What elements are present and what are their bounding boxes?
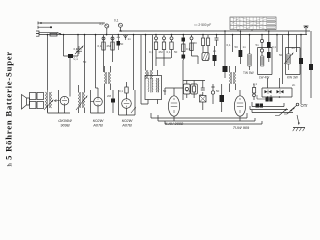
wire col x47 xyxy=(47,35,49,90)
gang value label xyxy=(194,23,211,27)
wire col 232 xyxy=(232,35,234,52)
resistor R19 black xyxy=(299,58,303,64)
resistor R10 black xyxy=(223,66,228,72)
IF transformer T2 coil xyxy=(146,35,153,79)
svg-text:5n: 5n xyxy=(256,43,260,47)
svg-text:2M: 2M xyxy=(107,44,112,48)
wire col x103 with resistor xyxy=(103,35,105,72)
resistor R21 xyxy=(253,88,256,94)
svg-text:0,1: 0,1 xyxy=(98,44,102,48)
svg-text:2n: 2n xyxy=(292,83,296,87)
resistor pair R7 R8 xyxy=(202,38,205,46)
choke blobs xyxy=(266,98,269,102)
arrow to ground xyxy=(297,115,300,124)
svg-text:2M: 2M xyxy=(199,93,204,97)
right-most verticals xyxy=(297,31,312,88)
svg-text:2n: 2n xyxy=(292,46,296,50)
cap C10 xyxy=(215,35,219,46)
svg-text:0,1: 0,1 xyxy=(114,19,119,23)
cap C16 xyxy=(253,94,256,97)
misc verticals mid xyxy=(96,35,149,104)
svg-text:3,5: 3,5 xyxy=(99,22,104,26)
band switch contact loop xyxy=(262,78,292,98)
svg-text:50: 50 xyxy=(83,60,87,64)
cap C7 xyxy=(170,37,173,40)
svg-text:50: 50 xyxy=(216,89,220,93)
resistor R1 xyxy=(102,42,105,50)
svg-text:KW 3W: KW 3W xyxy=(287,76,298,80)
svg-text:909B: 909B xyxy=(60,123,69,128)
dial lamp L1 xyxy=(105,24,109,28)
output choke coil xyxy=(44,90,53,112)
On/Off switch xyxy=(301,88,311,104)
coil L4 xyxy=(261,56,264,66)
svg-text:0,1: 0,1 xyxy=(74,47,78,51)
output transformer windings xyxy=(30,93,37,100)
svg-text:2M: 2M xyxy=(107,94,112,98)
svg-text:K.AV 9008: K.AV 9008 xyxy=(165,121,184,126)
antenna lead wire A xyxy=(38,22,105,25)
cap C5 xyxy=(155,37,158,40)
trimmer cap xyxy=(75,46,83,54)
AVC loop 1 xyxy=(184,84,191,94)
antenna lead wire B xyxy=(38,26,51,29)
wire col x95 xyxy=(95,35,97,88)
svg-text:50: 50 xyxy=(163,89,167,93)
stage box V3 xyxy=(119,90,136,115)
upper rail (second bus) xyxy=(119,30,310,32)
coil L5 xyxy=(284,32,293,71)
tuning gang box xyxy=(230,17,276,31)
svg-text:50: 50 xyxy=(120,42,124,46)
svg-text:2n: 2n xyxy=(213,49,217,53)
cap C8 black xyxy=(182,38,186,42)
side title text xyxy=(4,51,14,183)
lower entry wire with fuse xyxy=(39,32,62,35)
cap C11 xyxy=(260,39,263,42)
svg-text:2M: 2M xyxy=(159,50,164,54)
resistor R18 black xyxy=(220,95,225,102)
svg-text:50: 50 xyxy=(194,41,198,45)
crossed box xyxy=(200,96,207,103)
cap C14 xyxy=(211,91,214,94)
grid cap lead xyxy=(54,100,60,102)
svg-text:50: 50 xyxy=(174,50,178,54)
tube V1 xyxy=(60,96,69,105)
wires around V4 xyxy=(165,60,183,100)
oscillator coil L3 xyxy=(248,35,251,70)
svg-text:≈≈ 2·500 pF: ≈≈ 2·500 pF xyxy=(194,23,211,27)
tube V3 xyxy=(122,99,132,109)
tube V1 label xyxy=(58,118,72,128)
cap C9 xyxy=(190,37,193,40)
node dot on lead A xyxy=(40,22,42,24)
antenna symbol top right xyxy=(304,26,309,35)
terminal A xyxy=(36,31,39,34)
IFT1 coil (above V3) xyxy=(105,66,111,90)
resistor R15 above V3 xyxy=(125,87,128,93)
svg-text:1n: 1n xyxy=(243,45,247,49)
resistor R2 xyxy=(111,42,114,50)
svg-text:0,1: 0,1 xyxy=(167,50,171,54)
cap dot C2 xyxy=(102,37,105,40)
svg-text:0,1: 0,1 xyxy=(253,82,257,86)
resistor R3 xyxy=(154,42,157,50)
resistor R12 black xyxy=(267,42,271,48)
bottom rail left xyxy=(48,105,59,113)
nested bottom-right wire loops xyxy=(252,102,284,107)
svg-text:0,1: 0,1 xyxy=(272,45,276,49)
svg-text:0,1: 0,1 xyxy=(227,43,231,47)
resistor R17 xyxy=(201,81,205,111)
coupling cap C1 xyxy=(68,54,73,58)
svg-text:A07B: A07B xyxy=(92,123,103,128)
tube V5 label xyxy=(233,125,250,130)
svg-text:TUW 909: TUW 909 xyxy=(233,125,250,130)
resistor R4 xyxy=(162,42,165,50)
resistor R6b black xyxy=(182,55,186,59)
svg-text:0,1: 0,1 xyxy=(186,89,190,93)
cap C4 black xyxy=(117,41,121,46)
cap C12 xyxy=(260,49,263,52)
cap C13 xyxy=(185,87,188,90)
resistor R5b xyxy=(190,43,193,51)
node dot lead B xyxy=(50,26,52,28)
cap C6 xyxy=(163,37,166,40)
IF transformer T4 box xyxy=(145,70,162,104)
IF transformer T3 xyxy=(76,35,87,113)
speaker xyxy=(22,95,30,110)
svg-text:A07B: A07B xyxy=(121,123,132,128)
svg-text:0,1: 0,1 xyxy=(119,89,123,93)
output transformer core blobs xyxy=(256,104,260,108)
top rail (main bus) xyxy=(39,34,307,36)
svg-text:TW 5W: TW 5W xyxy=(243,71,254,75)
rail junction dots xyxy=(47,30,302,35)
resistor R6 xyxy=(182,44,185,52)
switch arm S1 xyxy=(279,109,286,116)
tube V4 (output) xyxy=(168,96,179,116)
tube V1 stage box xyxy=(59,56,71,113)
wire col x112 with resistor xyxy=(112,35,114,62)
svg-text:0,1: 0,1 xyxy=(186,47,190,51)
tube V2 label xyxy=(92,118,103,128)
antenna coil loop xyxy=(64,35,79,56)
fuse F1 xyxy=(50,33,57,36)
coil can (hatched) xyxy=(202,53,209,61)
mid horizontals near V4/V5 xyxy=(156,58,164,66)
resistor R20 black xyxy=(309,64,313,70)
switch contact circle xyxy=(296,103,299,106)
resistor R13 black xyxy=(267,52,271,58)
resistor R5 xyxy=(170,42,173,50)
svg-text:50: 50 xyxy=(235,45,239,49)
value texts xyxy=(74,37,296,98)
dial lamp L2 xyxy=(118,23,122,27)
svg-text:OTr: OTr xyxy=(301,103,309,108)
resistor R9 black xyxy=(213,55,217,61)
AVC loop 2 xyxy=(191,84,198,94)
coils above V5 xyxy=(230,66,236,92)
resistor R16 xyxy=(193,86,196,92)
coil loop frames right xyxy=(258,48,273,75)
svg-text:50: 50 xyxy=(279,53,283,57)
tube V2 xyxy=(94,97,103,106)
switch arm at V3 xyxy=(131,108,136,114)
tube V5 xyxy=(234,96,245,116)
svg-text:0,1: 0,1 xyxy=(74,57,79,61)
terminal E xyxy=(36,34,39,37)
switch arm S2 xyxy=(287,107,294,114)
diode-ish D1 xyxy=(124,35,128,40)
tube V4 label xyxy=(165,121,184,126)
resistor R11 black xyxy=(239,50,243,57)
svg-text:0,1: 0,1 xyxy=(149,50,153,54)
bottom feedback lines xyxy=(151,113,247,118)
ground symbol xyxy=(293,128,305,132)
svg-text:1n: 1n xyxy=(128,37,132,41)
svg-text:Kapsch 5 Röhren Batterie-Supe: Kapsch 5 Röhren Batterie-Super xyxy=(4,51,14,167)
resistor R14 black xyxy=(111,99,115,103)
cap dot C3 xyxy=(111,37,114,40)
tube V3 label xyxy=(121,118,132,128)
